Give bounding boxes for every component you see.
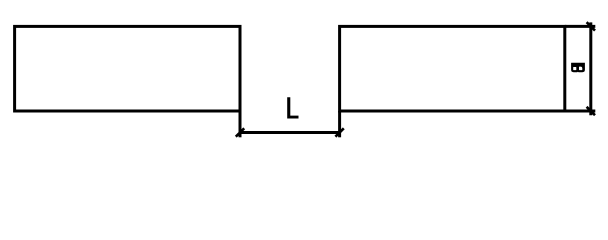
tick L left — [236, 128, 244, 136]
extension line left (gap) — [239, 111, 242, 137]
extension line B bottom — [565, 110, 596, 113]
tick B top — [587, 22, 595, 30]
dimension line B — [589, 22, 592, 115]
right plate outline — [340, 26, 565, 111]
extension line B top — [565, 25, 596, 28]
tick L right — [335, 128, 343, 136]
label B — [571, 63, 585, 72]
extension line right (gap) — [338, 111, 341, 137]
label L — [287, 97, 298, 118]
tick B bottom — [587, 107, 595, 115]
left plate outline — [15, 26, 240, 111]
dimension line L — [240, 131, 340, 134]
